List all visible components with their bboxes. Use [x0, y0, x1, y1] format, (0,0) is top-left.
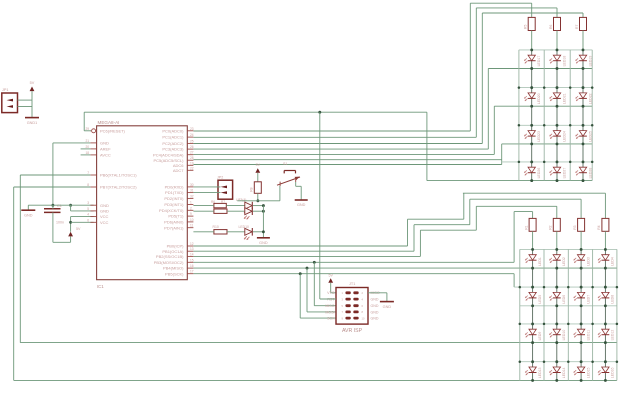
svg-text:20: 20	[85, 145, 89, 149]
svg-text:LED7: LED7	[586, 295, 590, 304]
svg-text:LED9: LED9	[538, 332, 542, 341]
svg-text:LED24: LED24	[562, 131, 566, 142]
svg-text:PD7(AIN1): PD7(AIN1)	[164, 225, 184, 230]
svg-text:RST: RST	[327, 298, 335, 302]
svg-text:MOSI: MOSI	[325, 310, 334, 314]
svg-text:PC4(ADC4/SDA): PC4(ADC4/SDA)	[153, 152, 184, 157]
svg-text:JP1: JP1	[2, 88, 9, 92]
svg-text:2: 2	[190, 206, 192, 210]
svg-text:17: 17	[190, 270, 194, 274]
svg-text:15: 15	[190, 258, 194, 262]
svg-text:PC1(ADC1): PC1(ADC1)	[162, 135, 184, 140]
svg-text:R6: R6	[549, 25, 553, 29]
svg-text:ADC7: ADC7	[173, 168, 184, 173]
svg-text:10: 10	[190, 218, 194, 222]
svg-text:PC0(ADC0): PC0(ADC0)	[162, 128, 184, 133]
svg-text:U$3(4): U$3(4)	[236, 198, 246, 202]
svg-text:PC6(/RESET): PC6(/RESET)	[100, 128, 126, 133]
svg-text:GND: GND	[24, 214, 33, 218]
svg-text:IC1: IC1	[97, 284, 104, 289]
svg-text:PD3(INT1): PD3(INT1)	[164, 202, 184, 207]
svg-text:LED21: LED21	[562, 93, 566, 104]
svg-text:GND: GND	[100, 141, 109, 146]
svg-text:5V: 5V	[328, 273, 333, 277]
svg-text:VTG: VTG	[327, 291, 335, 295]
svg-text:14: 14	[190, 252, 194, 256]
svg-text:13: 13	[190, 247, 194, 251]
svg-text:LED25: LED25	[588, 131, 592, 142]
svg-text:R4: R4	[597, 225, 601, 229]
svg-text:PC2(ADC2): PC2(ADC2)	[162, 141, 184, 146]
svg-text:GND: GND	[297, 203, 306, 207]
svg-text:PB4(MISO): PB4(MISO)	[163, 266, 184, 271]
svg-text:R8: R8	[250, 187, 254, 191]
svg-text:PD6(AIN0): PD6(AIN0)	[164, 220, 184, 225]
svg-text:LED20: LED20	[537, 93, 541, 104]
svg-text:LED10: LED10	[562, 330, 566, 341]
svg-text:AREF: AREF	[100, 147, 111, 152]
svg-text:LED12: LED12	[611, 330, 615, 341]
svg-text:PB2(SS/OC1B): PB2(SS/OC1B)	[156, 254, 184, 259]
svg-text:6: 6	[87, 218, 89, 222]
svg-text:LED6: LED6	[562, 295, 566, 304]
svg-text:AVR ISP: AVR ISP	[342, 328, 363, 334]
svg-text:LED22: LED22	[588, 93, 592, 104]
svg-text:LED1: LED1	[538, 257, 542, 266]
svg-text:VCC: VCC	[100, 214, 109, 219]
svg-text:PD5(T1): PD5(T1)	[168, 214, 184, 219]
svg-text:PB5(SCK): PB5(SCK)	[165, 271, 184, 276]
svg-text:R5: R5	[524, 25, 528, 29]
svg-text:LED5: LED5	[538, 295, 542, 304]
svg-text:MEGA8-AI: MEGA8-AI	[98, 120, 120, 125]
svg-text:LED3: LED3	[586, 257, 590, 266]
svg-text:S1: S1	[283, 162, 287, 166]
svg-text:AVCC: AVCC	[100, 153, 111, 158]
svg-text:11: 11	[190, 224, 194, 228]
svg-text:VCC: VCC	[100, 220, 109, 225]
svg-text:19: 19	[190, 161, 194, 165]
svg-text:GND1: GND1	[27, 121, 38, 125]
svg-text:5: 5	[87, 207, 89, 211]
svg-text:GND: GND	[371, 317, 379, 321]
svg-text:GND: GND	[259, 241, 268, 245]
svg-text:4: 4	[87, 213, 89, 217]
svg-text:8: 8	[87, 183, 89, 187]
svg-text:R10: R10	[213, 225, 219, 229]
svg-text:PB6(XTAL1/TOSC1): PB6(XTAL1/TOSC1)	[100, 173, 137, 178]
svg-text:LED18: LED18	[562, 56, 566, 67]
svg-text:18: 18	[85, 151, 89, 155]
svg-text:LED23: LED23	[537, 131, 541, 142]
svg-text:31: 31	[190, 189, 194, 193]
svg-text:PB3(MOSI/OC2): PB3(MOSI/OC2)	[154, 260, 184, 265]
svg-text:1: 1	[190, 201, 192, 205]
svg-text:MISO: MISO	[325, 304, 334, 308]
svg-text:28: 28	[190, 156, 194, 160]
svg-text:27: 27	[190, 151, 194, 155]
svg-text:LED28: LED28	[588, 168, 592, 179]
svg-text:JP2: JP2	[217, 176, 223, 180]
svg-text:5V: 5V	[30, 81, 35, 85]
svg-text:29: 29	[85, 127, 89, 131]
svg-text:LED10: LED10	[239, 225, 249, 229]
svg-text:LED11: LED11	[586, 330, 590, 340]
svg-text:R7: R7	[575, 25, 579, 29]
svg-text:GND: GND	[371, 298, 379, 302]
svg-text:JT1: JT1	[349, 282, 355, 286]
svg-text:GND: GND	[100, 203, 109, 208]
svg-text:30: 30	[190, 183, 194, 187]
svg-text:7: 7	[87, 171, 89, 175]
svg-text:PD2(INT0): PD2(INT0)	[164, 196, 184, 201]
svg-text:100n: 100n	[56, 221, 64, 225]
svg-text:R1: R1	[524, 225, 528, 229]
svg-text:PD4(XCK/T0): PD4(XCK/T0)	[159, 208, 184, 213]
svg-text:LED15: LED15	[586, 367, 590, 378]
svg-text:32: 32	[190, 194, 194, 198]
svg-text:26: 26	[190, 145, 194, 149]
svg-text:24: 24	[190, 133, 194, 137]
svg-text:LED19: LED19	[588, 56, 592, 67]
svg-text:LED14: LED14	[562, 367, 566, 378]
svg-text:GND: GND	[383, 305, 392, 309]
svg-text:PC3(ADC3): PC3(ADC3)	[162, 147, 184, 152]
svg-text:22: 22	[190, 166, 194, 170]
svg-text:SCK: SCK	[327, 317, 335, 321]
svg-text:GND: GND	[371, 310, 379, 314]
svg-text:GND: GND	[371, 304, 379, 308]
svg-text:3: 3	[87, 201, 89, 205]
svg-text:5V: 5V	[256, 163, 261, 167]
svg-text:PD0(RXD): PD0(RXD)	[165, 185, 185, 190]
svg-text:LED26: LED26	[537, 168, 541, 179]
svg-text:12: 12	[190, 242, 194, 246]
svg-text:LED16: LED16	[611, 367, 615, 378]
svg-text:21: 21	[85, 139, 89, 143]
svg-text:LED27: LED27	[562, 168, 566, 179]
svg-text:R3: R3	[573, 225, 577, 229]
svg-text:LED2: LED2	[562, 257, 566, 266]
svg-text:16: 16	[190, 264, 194, 268]
svg-text:PD1(TXD): PD1(TXD)	[165, 190, 184, 195]
svg-text:25: 25	[190, 139, 194, 143]
svg-text:23: 23	[190, 127, 194, 131]
svg-text:GND: GND	[100, 209, 109, 214]
svg-text:LED17: LED17	[537, 56, 541, 67]
svg-text:LED4: LED4	[611, 257, 615, 266]
svg-text:9: 9	[190, 212, 192, 216]
svg-text:R2: R2	[549, 225, 553, 229]
svg-text:LED13: LED13	[538, 367, 542, 378]
svg-text:LED8: LED8	[611, 295, 615, 304]
svg-text:5V: 5V	[76, 227, 81, 231]
svg-text:PB7(XTAL2/TOSC2): PB7(XTAL2/TOSC2)	[100, 185, 137, 190]
